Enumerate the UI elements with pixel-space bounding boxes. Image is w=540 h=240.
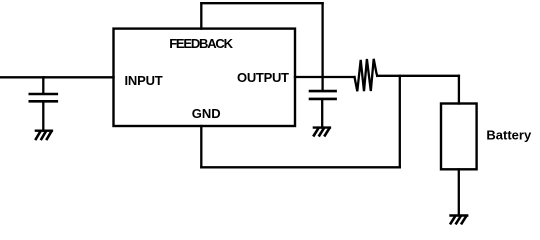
svg-text:OUTPUT: OUTPUT <box>237 70 289 85</box>
wire return drop at node <box>399 76 401 168</box>
wire output rail (resistor to battery drop) <box>377 75 459 77</box>
ground G2 <box>314 128 330 136</box>
wire gnd pin (box bottom down) <box>200 126 202 167</box>
ground G1 <box>36 131 52 139</box>
capacitor C1 stub <box>42 77 44 93</box>
wire input rail <box>0 76 114 78</box>
wire output rail (box to resistor) <box>295 76 355 78</box>
svg-text:Battery: Battery <box>486 128 532 143</box>
wire feedback pin (box top to top rail) <box>200 3 202 28</box>
capacitor C2 top plate <box>310 90 336 93</box>
capacitor C1 lower lead <box>42 102 44 131</box>
svg-text:GND: GND <box>192 106 221 121</box>
capacitor C2 lower lead <box>321 100 323 128</box>
regulator U1 body <box>114 29 296 126</box>
wire feedback right drop to output node <box>321 3 323 90</box>
svg-text:FEEDBACK: FEEDBACK <box>169 36 233 51</box>
battery BT1 body <box>441 104 477 170</box>
capacitor C1 top plate <box>30 93 57 96</box>
svg-text:INPUT: INPUT <box>125 73 163 88</box>
wire feedback top rail <box>201 2 322 4</box>
wire battery bottom lead <box>458 169 460 215</box>
ground G3 <box>451 216 468 224</box>
capacitor C2 bottom plate <box>310 98 336 101</box>
capacitor C1 bottom plate <box>30 100 57 103</box>
wire bottom return rail <box>201 166 399 168</box>
resistor R1 <box>355 59 378 91</box>
wire battery top lead <box>458 76 460 104</box>
